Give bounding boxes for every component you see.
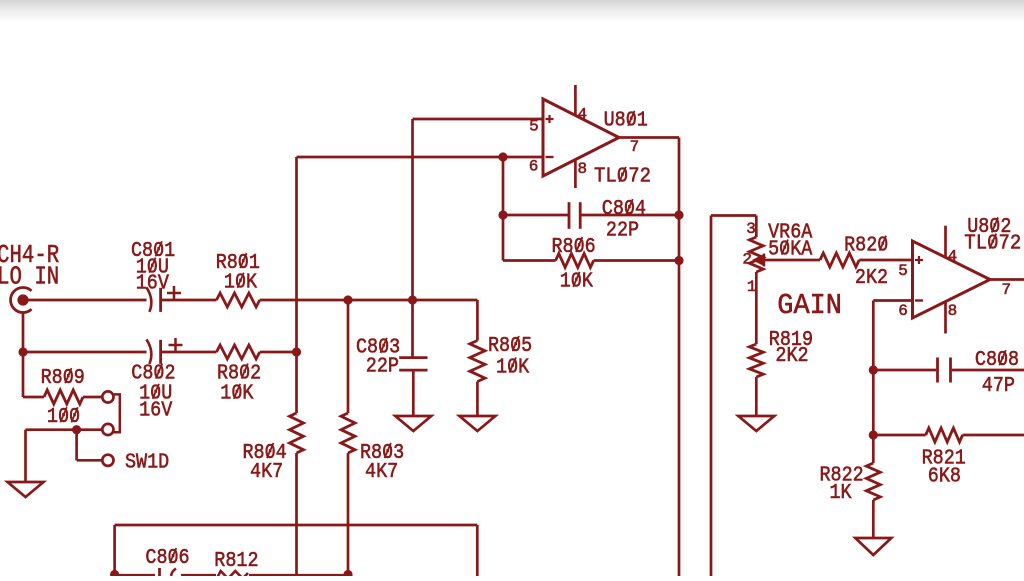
svg-text:GAIN: GAIN [777, 289, 842, 322]
wire ground drop [24, 430, 27, 482]
junction bottom mid [343, 570, 352, 579]
junction pin6 feedback [498, 152, 507, 161]
capacitor C803 [399, 356, 427, 359]
wire to R805 [476, 300, 479, 341]
junction node B [408, 295, 417, 304]
svg-text:C808: C808 [975, 348, 1019, 372]
ground G5 [855, 538, 891, 555]
switch SW1D pole circle [102, 391, 113, 402]
resistor R803 [341, 413, 355, 453]
wire C801 to R801 [161, 299, 217, 302]
svg-text:47P: 47P [982, 374, 1015, 398]
wire R806 left [503, 259, 556, 262]
wire pin5 vertical [411, 119, 414, 358]
resistor R819 [749, 344, 763, 377]
wire R819 to ground [755, 377, 758, 416]
capacitor C806 [158, 568, 161, 576]
connector CH4-R LO IN jack [11, 288, 32, 313]
junction lower input [18, 347, 27, 356]
wire U802 pin6 [873, 299, 912, 302]
svg-text:22P: 22P [606, 218, 639, 242]
op-amp U802 [913, 241, 991, 318]
wire to C802 [23, 351, 147, 354]
wire C808 left [873, 369, 936, 372]
wire R801 to R805 branch [260, 299, 478, 302]
svg-text:16V: 16V [136, 272, 169, 296]
svg-text:6: 6 [529, 158, 539, 176]
wire U802 output [990, 278, 1024, 281]
svg-text:2K2: 2K2 [855, 266, 888, 290]
ground G3 [459, 416, 495, 431]
wire pin6 down [872, 301, 875, 464]
wire R821 left [873, 434, 925, 437]
svg-text:22P: 22P [366, 355, 399, 379]
junction R802 node [292, 347, 301, 356]
switch SW1D common circle [102, 455, 113, 466]
junction C808 node [869, 365, 878, 374]
wire feedback vertical [502, 157, 505, 261]
wire bottom segment 2 [181, 574, 216, 577]
U801 pin 8 stub [574, 160, 577, 189]
svg-text:C806: C806 [145, 546, 189, 570]
resistor R820 [820, 253, 859, 267]
svg-text:7: 7 [1002, 281, 1012, 299]
junction node A [343, 295, 352, 304]
wire output vertical [678, 138, 681, 577]
wire C803 to ground [412, 370, 415, 416]
svg-text:C804: C804 [602, 197, 646, 221]
wire bottom bus right [476, 525, 479, 576]
capacitor C808 [936, 358, 939, 383]
switch SW1D throw circle [102, 424, 113, 435]
VR6A wiper arrow [753, 254, 764, 266]
wire bottom segment 3 [249, 574, 348, 577]
svg-text:6: 6 [898, 302, 908, 320]
potentiometer VR6A [749, 237, 763, 272]
wire R822 to ground [872, 500, 875, 538]
svg-text:3: 3 [746, 220, 756, 238]
switch SW1D bracket [112, 394, 119, 432]
op-amp U801 [543, 99, 619, 176]
resistor R809 [44, 390, 83, 404]
junction R821 node [869, 430, 878, 439]
svg-text:R809: R809 [41, 366, 85, 390]
svg-text:50KA: 50KA [768, 237, 812, 261]
wire C802 to R802 [161, 351, 217, 354]
wire jack down [22, 312, 25, 352]
junction switch node [72, 425, 81, 434]
svg-text:2: 2 [742, 251, 752, 269]
ground G4 [738, 416, 774, 431]
wire R821 right [963, 434, 1024, 437]
wire R803 lower [347, 453, 350, 575]
wire R806 right [594, 259, 679, 262]
wire R805 to ground [476, 382, 479, 417]
wire switch to ground [26, 428, 103, 431]
wire pin5 horizontal [413, 118, 544, 121]
svg-text:4K7: 4K7 [250, 460, 283, 484]
wire stub to SW1D common [75, 430, 78, 461]
ground G1 [8, 482, 44, 497]
wire pin6 horizontal [297, 156, 544, 159]
svg-text:U801: U801 [604, 109, 648, 133]
svg-text:4K7: 4K7 [365, 460, 398, 484]
wire bottom bus top [115, 524, 478, 527]
svg-text:R805: R805 [488, 334, 532, 358]
resistor R804 [290, 413, 304, 453]
wire R809 to switch [83, 396, 103, 399]
svg-text:4: 4 [578, 106, 588, 124]
svg-text:2K2: 2K2 [775, 344, 808, 368]
capacitor C804 [568, 202, 571, 229]
svg-text:1K: 1K [830, 481, 852, 505]
wire C808 right [952, 369, 1024, 372]
resistor R821 [926, 428, 963, 442]
wire pot pin3 lead [755, 216, 758, 238]
wire riser to pot [710, 216, 713, 577]
U802 pin 8 stub [944, 302, 947, 334]
wire R820 to U802 [859, 259, 912, 262]
svg-text:5: 5 [529, 118, 539, 136]
svg-text:R812: R812 [214, 549, 258, 573]
svg-text:LO IN: LO IN [0, 262, 59, 292]
svg-text:R806: R806 [552, 235, 596, 259]
wire R809 lead [23, 396, 44, 399]
wire C804 right [580, 214, 679, 217]
junction C804 left [498, 210, 507, 219]
junction bottom left [110, 570, 119, 579]
resistor R806 [556, 254, 594, 268]
svg-text:SW1D: SW1D [125, 450, 169, 474]
resistor R805 [470, 341, 485, 382]
wire pin6 branch vertical upper [295, 157, 298, 413]
wire down to R809 [22, 352, 25, 397]
wire U801 output [618, 136, 679, 139]
U801 pin 4 stub [574, 85, 577, 116]
svg-text:8: 8 [578, 160, 588, 178]
wire pot pin1 down [755, 272, 758, 344]
wire bottom segment 1 [115, 574, 155, 577]
capacitor C801 [146, 287, 151, 312]
svg-text:16V: 16V [139, 399, 172, 423]
wire wiper to R820 [764, 259, 820, 262]
wire bottom bus left [113, 525, 116, 576]
junction R806 right [674, 256, 683, 265]
wire R804 lower [295, 453, 298, 576]
junction C804 right [674, 210, 683, 219]
svg-text:6K8: 6K8 [928, 465, 961, 489]
svg-text:8: 8 [948, 302, 958, 320]
resistor R801 [217, 293, 260, 307]
svg-text:5: 5 [898, 262, 908, 280]
wire node A vertical [347, 300, 350, 413]
ground G2 [395, 416, 431, 431]
resistor R822 [866, 463, 880, 500]
U802 pin 4 stub [944, 226, 947, 257]
capacitor C802 [146, 339, 151, 364]
wire jack to C801 [23, 299, 147, 302]
wire R802 to node [260, 351, 297, 354]
svg-text:4: 4 [948, 247, 958, 265]
svg-text:7: 7 [630, 138, 640, 156]
resistor R802 [217, 345, 260, 359]
wire C804 left [503, 214, 569, 217]
resistor R812 [217, 571, 248, 579]
